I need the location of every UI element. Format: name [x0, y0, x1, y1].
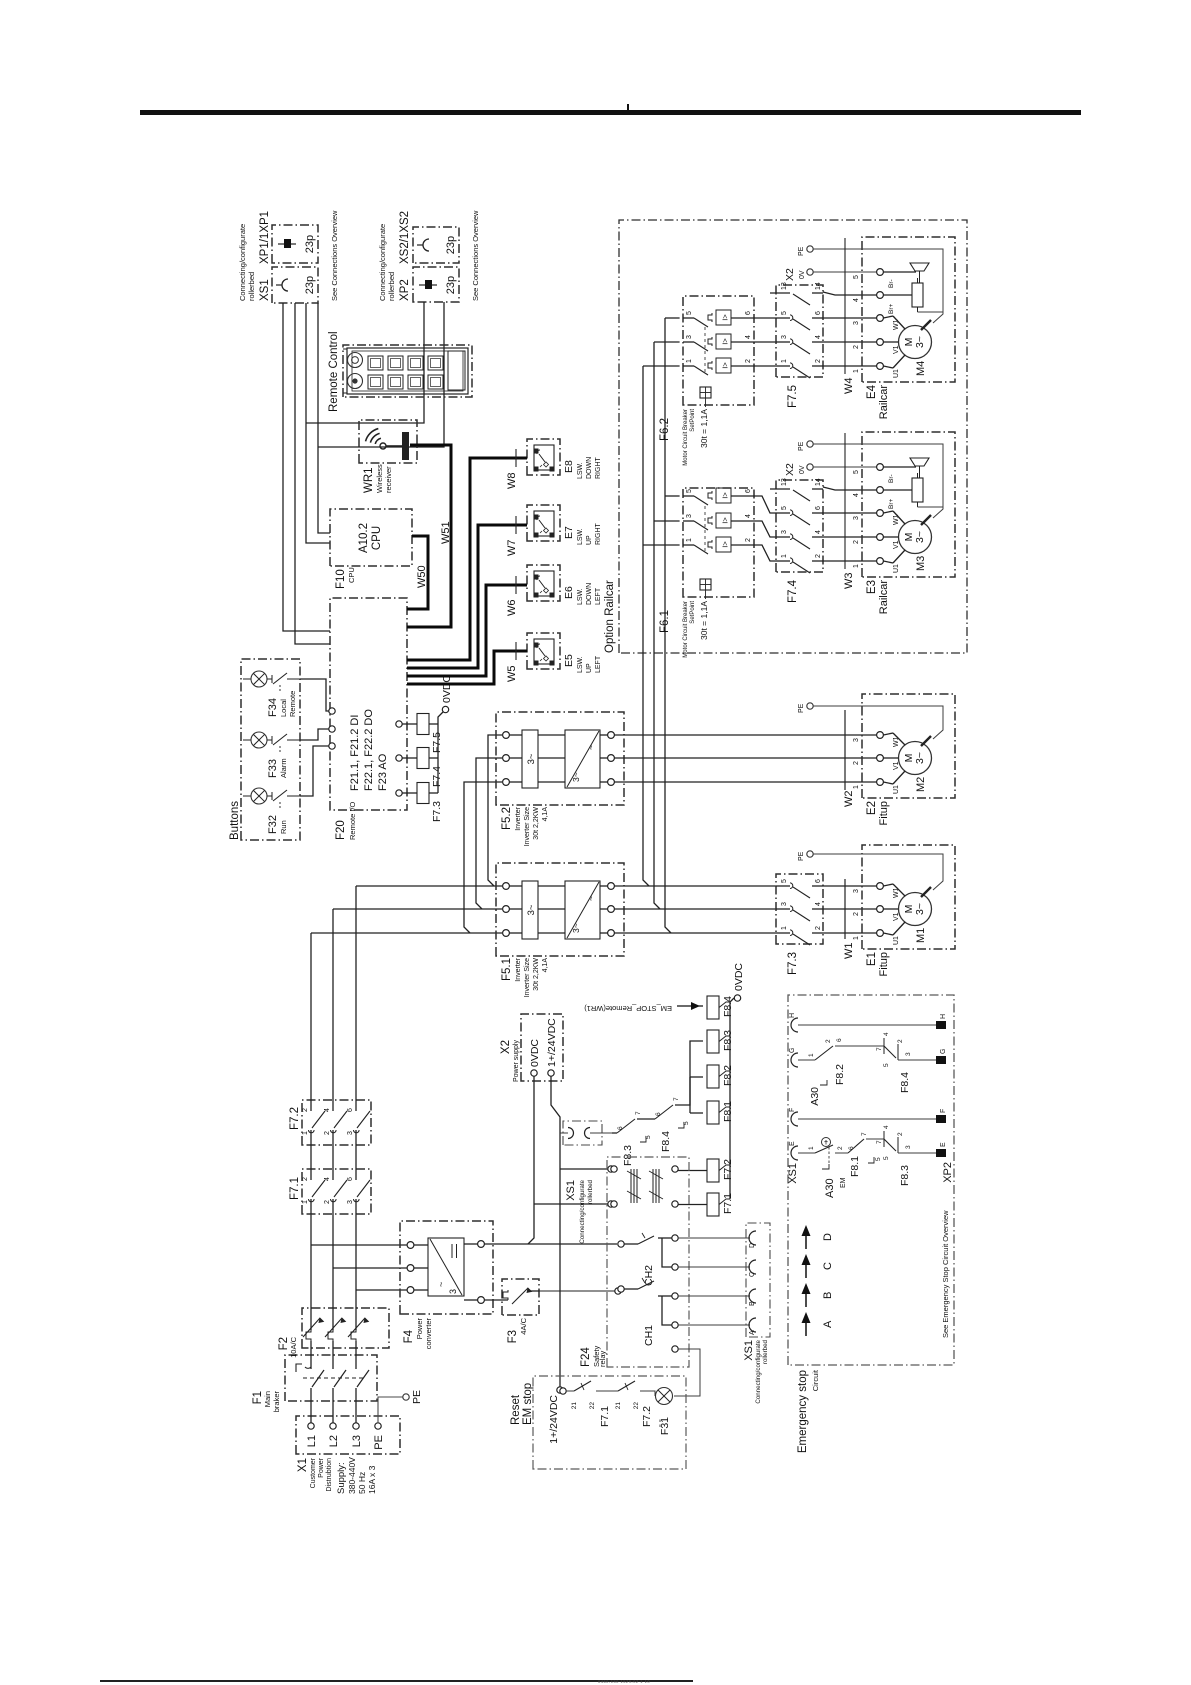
svg-text:Supply:: Supply:: [336, 1462, 347, 1494]
svg-text:2: 2: [815, 926, 822, 930]
svg-text:F: F: [940, 1109, 947, 1113]
svg-text:G: G: [789, 1048, 796, 1053]
svg-text:3~: 3~: [914, 336, 926, 348]
svg-text:4: 4: [815, 335, 822, 339]
svg-text:LSW.: LSW.: [577, 588, 584, 605]
svg-text:1: 1: [302, 1200, 309, 1204]
brake release horn E4: [883, 271, 916, 273]
svg-text:23p: 23p: [445, 236, 457, 254]
svg-text:3: 3: [347, 1131, 354, 1135]
svg-text:2: 2: [853, 540, 860, 544]
svg-text:E: E: [789, 1141, 796, 1146]
svg-text:X2: X2: [784, 268, 796, 281]
svg-text:3: 3: [905, 1052, 912, 1056]
motor M2: [899, 742, 932, 775]
svg-text:Main: Main: [263, 1391, 272, 1407]
svg-text:1: 1: [686, 538, 693, 542]
svg-text:3: 3: [781, 902, 788, 906]
svg-text:rollerbed: rollerbed: [247, 272, 256, 301]
svg-text:UP: UP: [586, 663, 593, 673]
svg-text:4: 4: [745, 335, 752, 339]
svg-text:3: 3: [347, 1200, 354, 1204]
svg-text:3~: 3~: [914, 752, 926, 764]
svg-text:F8.3: F8.3: [722, 1030, 734, 1051]
wire F24 to reset lamp: [674, 1349, 700, 1396]
svg-text:5: 5: [875, 1157, 882, 1161]
svg-text:F7.4: F7.4: [787, 579, 799, 603]
svg-text:380-440V: 380-440V: [347, 1457, 357, 1494]
brake resistor E3: [883, 489, 912, 491]
svg-text:7: 7: [876, 1140, 883, 1144]
svg-text:W50: W50: [416, 565, 428, 588]
svg-text:6: 6: [815, 879, 822, 883]
svg-text:2: 2: [897, 1132, 904, 1136]
svg-text:3: 3: [853, 516, 860, 520]
svg-text:1: 1: [808, 1053, 815, 1057]
cable W8 to E8: [407, 458, 527, 660]
XS1 rollerbed connector (safety chain): [563, 1121, 602, 1145]
svg-text:Inverter Size: Inverter Size: [524, 958, 531, 997]
feed line C to breaker pin5: [665, 318, 671, 933]
F24 forcibly guided contact symbols: [630, 1169, 632, 1203]
wires F6.2 to F7.5: [754, 365, 776, 367]
svg-text:EM_STOP_Remote(WR1): EM_STOP_Remote(WR1): [584, 1004, 672, 1013]
svg-text:F7.5: F7.5: [787, 385, 799, 408]
svg-text:3: 3: [853, 321, 860, 325]
svg-text:2: 2: [897, 1039, 904, 1043]
svg-text:I>: I>: [721, 362, 730, 369]
svg-text:E3: E3: [866, 580, 878, 594]
svg-text:1: 1: [302, 1131, 309, 1135]
contactor coils F7.3 F7.4 F7.5 at F20 outputs: [396, 790, 402, 796]
svg-text:5: 5: [883, 1063, 890, 1067]
svg-text:3: 3: [853, 889, 860, 893]
svg-text:1: 1: [853, 564, 860, 568]
svg-text:B: B: [749, 1301, 756, 1306]
wire XS1 to F20 (2): [295, 303, 330, 644]
svg-text:I>: I>: [721, 492, 730, 499]
reset 24V terminal: [560, 1388, 566, 1394]
brake slash M4: [921, 320, 931, 330]
svg-text:6: 6: [836, 1038, 843, 1042]
svg-text:F24: F24: [580, 1347, 592, 1367]
svg-text:M4: M4: [915, 361, 927, 376]
svg-text:13: 13: [781, 282, 788, 290]
svg-text:Connecting/configurate: Connecting/configurate: [755, 1339, 762, 1403]
X2 terminal 0V E3: [807, 464, 813, 470]
wire XS1 to CPU (2) with branch to XP2: [318, 303, 330, 533]
svg-text:G: G: [940, 1049, 947, 1054]
svg-text:4: 4: [883, 1125, 890, 1129]
cable W5 to E5: [407, 651, 527, 684]
svg-text:XS1: XS1: [565, 1180, 577, 1201]
reset contact F7.1 21-22: [566, 1390, 574, 1392]
svg-text:F4: F4: [403, 1329, 415, 1343]
test button F6.1: [700, 579, 711, 590]
taps to F4 inputs: [311, 1244, 407, 1246]
svg-text:6: 6: [655, 1112, 662, 1116]
svg-text:E1: E1: [866, 952, 878, 966]
svg-text:F32: F32: [267, 815, 279, 834]
svg-text:F31: F31: [659, 1417, 671, 1435]
svg-text:23p: 23p: [304, 235, 316, 253]
svg-text:2: 2: [302, 1108, 309, 1112]
X2 power supply box: [521, 1014, 563, 1081]
svg-text:W1: W1: [893, 514, 900, 525]
svg-text:3~: 3~: [914, 531, 926, 543]
feed line A to breaker pin1: [643, 366, 649, 886]
connector XP1/1XP1: [272, 225, 318, 263]
svg-text:E5: E5: [563, 654, 575, 667]
safety switch F8.3 (5-6-7): [612, 1132, 617, 1134]
svg-text:Fitup: Fitup: [878, 801, 890, 825]
svg-text:F34: F34: [267, 698, 279, 717]
svg-text:Buttons: Buttons: [229, 801, 241, 840]
phase trunk L3: [355, 1214, 357, 1308]
svg-text:PE: PE: [411, 1390, 423, 1404]
svg-text:5: 5: [683, 1121, 690, 1125]
feed line B to breaker pin3: [654, 342, 660, 909]
contact F8.2 on G: [798, 1059, 815, 1061]
svg-text:6: 6: [745, 311, 752, 315]
svg-text:Connecting/configurate: Connecting/configurate: [579, 1179, 586, 1243]
drop to F5.1 input 3: [356, 885, 502, 887]
wire F straight: [798, 1118, 936, 1120]
svg-text:3~: 3~: [526, 904, 537, 915]
svg-text:Remote: Remote: [288, 691, 297, 717]
svg-text:Railcar: Railcar: [878, 385, 890, 420]
svg-text:I>: I>: [721, 541, 730, 548]
svg-text:2: 2: [815, 359, 822, 363]
svg-text:I>: I>: [721, 517, 730, 524]
svg-text:B: B: [822, 1292, 834, 1299]
brake release horn E3: [883, 466, 916, 468]
24V rail from X2 to reset and F24: [551, 1076, 560, 1387]
svg-text:5: 5: [645, 1135, 652, 1139]
svg-text:PE: PE: [798, 441, 805, 451]
button F33: [243, 739, 251, 741]
svg-text:2: 2: [324, 1200, 331, 1204]
svg-text:~: ~: [586, 745, 596, 750]
svg-text:F7.2: F7.2: [722, 1159, 734, 1180]
svg-text:6: 6: [617, 1126, 624, 1130]
svg-text:2: 2: [837, 1146, 844, 1150]
svg-text:PE: PE: [798, 703, 805, 713]
svg-text:See Connections Overview: See Connections Overview: [330, 210, 339, 301]
svg-text:10A/C: 10A/C: [289, 1336, 298, 1357]
svg-text:13: 13: [781, 478, 788, 486]
svg-text:XP1/1XP1: XP1/1XP1: [259, 211, 271, 264]
svg-text:E4: E4: [866, 384, 878, 399]
svg-text:F6.1: F6.1: [659, 610, 671, 633]
svg-text:E7: E7: [563, 526, 575, 539]
cable marker W3: [844, 433, 846, 569]
drop to F5.1 input 2: [333, 908, 502, 910]
wire XS1 to CPU (1) with branch to XP2: [306, 303, 330, 543]
svg-text:6: 6: [745, 489, 752, 493]
X2 terminal 0V E4: [807, 269, 813, 275]
cable marker W1: [844, 879, 846, 939]
svg-text:2: 2: [853, 345, 860, 349]
0V rail from F4 to X2 and F24: [484, 1243, 617, 1245]
svg-text:W1: W1: [843, 943, 855, 960]
svg-text:W7: W7: [506, 540, 518, 557]
svg-text:F8.3: F8.3: [622, 1145, 634, 1166]
svg-text:M1: M1: [915, 928, 927, 943]
svg-text:Br-: Br-: [888, 474, 895, 483]
svg-text:U1: U1: [893, 564, 900, 573]
svg-text:~: ~: [436, 1282, 446, 1287]
svg-text:30t = 1,1A: 30t = 1,1A: [699, 601, 709, 640]
svg-text:W3: W3: [843, 573, 855, 590]
F1 pole: [355, 1388, 357, 1423]
svg-text:2: 2: [853, 761, 860, 765]
wires buttons to F20: [300, 746, 330, 796]
svg-text:F7.2: F7.2: [289, 1107, 301, 1130]
svg-text:5: 5: [853, 470, 860, 474]
svg-text:XS2/1XS2: XS2/1XS2: [399, 211, 411, 264]
svg-text:F5.2: F5.2: [501, 807, 513, 830]
svg-text:30t = 1,1A: 30t = 1,1A: [699, 409, 709, 448]
direction arrows A B C D: [805, 1323, 807, 1336]
svg-text:6: 6: [347, 1108, 354, 1112]
svg-text:W1: W1: [893, 736, 900, 747]
svg-text:3~: 3~: [526, 753, 537, 764]
cable W7 to E7: [407, 525, 527, 668]
svg-text:4: 4: [883, 1032, 890, 1036]
svg-text:Option Railcar: Option Railcar: [604, 580, 616, 653]
aux contact 13/14 F7.4: [770, 488, 790, 490]
svg-text:F20: F20: [335, 820, 347, 840]
svg-text:5: 5: [781, 311, 788, 315]
svg-text:PE: PE: [798, 246, 805, 256]
svg-text:1: 1: [781, 926, 788, 930]
svg-text:Power: Power: [318, 1457, 325, 1478]
svg-text:E6: E6: [563, 586, 575, 599]
svg-text:H: H: [789, 1013, 796, 1018]
unit box E4: [862, 237, 955, 382]
svg-text:XP2: XP2: [942, 1162, 954, 1183]
svg-text:Br+: Br+: [888, 499, 895, 510]
phase wires F7.2 to inverter columns: [310, 933, 312, 1100]
svg-text:H: H: [940, 1014, 947, 1019]
svg-text:5: 5: [686, 311, 693, 315]
svg-text:X1: X1: [297, 1458, 309, 1472]
svg-text:Run: Run: [279, 820, 288, 834]
wireless receiver WR1: [359, 420, 417, 463]
svg-text:2: 2: [815, 554, 822, 558]
svg-text:W2: W2: [843, 791, 855, 808]
svg-text:A: A: [822, 1320, 834, 1328]
svg-text:F7.3: F7.3: [787, 952, 799, 975]
svg-text:Inverter: Inverter: [515, 806, 522, 830]
wires F24 to XS1 connector A-D: [678, 1237, 750, 1239]
unit box E1: [862, 845, 955, 949]
svg-text:3: 3: [686, 335, 693, 339]
wires E4 contactor to terminals: [823, 365, 877, 367]
svg-text:Remote I/O: Remote I/O: [348, 801, 357, 840]
svg-text:3~: 3~: [914, 903, 926, 915]
motor circuit breaker F6.1: [683, 488, 754, 597]
svg-text:XS1: XS1: [259, 279, 271, 301]
svg-text:receiver: receiver: [384, 466, 393, 493]
connector XS2/1XS2: [413, 227, 459, 263]
svg-text:Connecting/configurate: Connecting/configurate: [378, 224, 387, 301]
svg-text:WR1: WR1: [363, 467, 375, 493]
svg-text:U1: U1: [893, 369, 900, 378]
contact F8.1 on E: [835, 1152, 848, 1154]
cable W6 to E6: [407, 585, 527, 676]
svg-text:1+/24VDC: 1+/24VDC: [546, 1018, 558, 1067]
svg-text:F8.3: F8.3: [899, 1165, 911, 1186]
svg-text:converter: converter: [424, 1317, 433, 1349]
svg-text:0V: 0V: [799, 465, 806, 474]
F7.1 F7.2 coil feeds from F24: [677, 1204, 707, 1206]
svg-text:1: 1: [781, 359, 788, 363]
motor M1: [899, 893, 932, 926]
svg-text:1: 1: [853, 785, 860, 789]
connector XP2: [413, 267, 459, 302]
svg-text:21: 21: [615, 1402, 622, 1410]
limit switch E5: [527, 633, 560, 669]
svg-text:4A/C: 4A/C: [519, 1317, 528, 1334]
svg-text:F: F: [789, 1108, 796, 1112]
svg-text:braker: braker: [272, 1391, 281, 1413]
unit box E2: [862, 694, 955, 798]
svg-text:M2: M2: [915, 777, 927, 792]
svg-text:UP: UP: [586, 535, 593, 545]
svg-text:A30: A30: [824, 1178, 836, 1198]
svg-text:7: 7: [673, 1097, 680, 1101]
svg-text:5: 5: [883, 1156, 890, 1160]
svg-text:F7.5: F7.5: [431, 732, 443, 753]
svg-text:4: 4: [745, 514, 752, 518]
svg-text:F8.4: F8.4: [660, 1131, 672, 1152]
svg-text:F5.1: F5.1: [501, 958, 513, 981]
F4 outputs: [478, 1241, 485, 1248]
svg-text:2: 2: [853, 912, 860, 916]
svg-text:5: 5: [686, 489, 693, 493]
svg-text:CPU: CPU: [347, 567, 356, 583]
svg-text:C: C: [822, 1262, 834, 1270]
svg-text:5: 5: [853, 275, 860, 279]
phase trunk L2: [332, 1214, 334, 1308]
svg-text:1+/24VDC: 1+/24VDC: [548, 1395, 560, 1444]
svg-text:L2: L2: [328, 1435, 340, 1447]
svg-text:RIGHT: RIGHT: [595, 457, 602, 480]
svg-text:3~: 3~: [571, 772, 581, 782]
svg-text:22: 22: [633, 1402, 640, 1410]
svg-text:PE: PE: [373, 1435, 385, 1450]
svg-text:Inverter Size: Inverter Size: [524, 807, 531, 846]
reset lamp F31: [656, 1388, 673, 1405]
rail to 0VDC terminal: [438, 712, 443, 793]
svg-text:F23 AO: F23 AO: [377, 753, 389, 791]
svg-text:W1: W1: [893, 887, 900, 898]
svg-text:A10.2: A10.2: [358, 523, 370, 553]
svg-text:2: 2: [745, 359, 752, 363]
CPU A10.2: [330, 509, 412, 566]
svg-text:RIGHT: RIGHT: [595, 523, 602, 546]
svg-text:L3: L3: [351, 1435, 363, 1447]
cable W50 CPU-F20: [407, 536, 428, 609]
svg-text:30t 2,2KW: 30t 2,2KW: [533, 807, 540, 840]
svg-text:E2: E2: [866, 801, 878, 815]
svg-text:7: 7: [876, 1047, 883, 1051]
XS1 connector A-D: [746, 1223, 770, 1337]
svg-text:Reset: Reset: [510, 1394, 522, 1425]
branch feeds to F5.2 inputs: [464, 782, 502, 933]
svg-text:2: 2: [324, 1131, 331, 1135]
svg-text:23p: 23p: [304, 276, 316, 294]
svg-text:SetPoint: SetPoint: [690, 601, 696, 624]
svg-text:~: ~: [586, 896, 596, 901]
svg-text:3: 3: [686, 514, 693, 518]
PE wire into E2: [813, 706, 943, 739]
svg-text:relay: relay: [598, 1350, 607, 1367]
svg-text:Motor Circuit Breaker: Motor Circuit Breaker: [683, 409, 689, 466]
emergency stop circuit box: [788, 995, 954, 1365]
svg-text:Local: Local: [279, 699, 288, 717]
F2 pole: [310, 1341, 312, 1355]
F24 input terminals: [611, 1166, 617, 1172]
svg-text:E8: E8: [563, 460, 575, 473]
svg-text:Customer: Customer: [310, 1457, 317, 1488]
power converter F4: [400, 1221, 493, 1314]
button F32: [243, 795, 251, 797]
contact F8.4 on G (changeover): [835, 1045, 884, 1047]
svg-text:Fitup: Fitup: [878, 952, 890, 976]
svg-text:4,1A: 4,1A: [542, 807, 549, 822]
aux contact 13/14 F7.5: [770, 292, 790, 294]
contactor F7.4: [776, 480, 823, 572]
svg-text:4: 4: [324, 1177, 331, 1181]
svg-text:XS1: XS1: [787, 1163, 799, 1184]
svg-text:D: D: [822, 1233, 834, 1241]
svg-text:Distrubtion: Distrubtion: [326, 1458, 333, 1492]
phase trunk L1: [310, 1214, 312, 1308]
svg-text:6: 6: [815, 506, 822, 510]
F1 pole: [332, 1388, 334, 1423]
F7.3 outputs to E1: [823, 932, 877, 934]
PE wire into E3: [813, 444, 943, 518]
svg-text:LSW.: LSW.: [577, 462, 584, 479]
svg-text:F10: F10: [335, 569, 347, 589]
svg-text:5: 5: [781, 879, 788, 883]
limit switch E8: [527, 439, 560, 475]
F2 pole: [332, 1341, 334, 1355]
inverter F5.1: [496, 863, 624, 956]
wire XS1 to F20 (1): [283, 303, 330, 631]
svg-text:F6.2: F6.2: [659, 418, 671, 441]
svg-text:F7.1: F7.1: [289, 1177, 301, 1200]
svg-text:4: 4: [324, 1108, 331, 1112]
svg-text:See Emergency Stop Circuit Ove: See Emergency Stop Circuit Overview: [941, 1210, 950, 1338]
unit box E3: [862, 432, 955, 577]
svg-text:F8.4: F8.4: [899, 1072, 911, 1093]
svg-text:A: A: [749, 1330, 756, 1335]
svg-text:L1: L1: [306, 1435, 318, 1447]
svg-text:PE: PE: [798, 851, 805, 861]
svg-text:D: D: [749, 1243, 756, 1248]
svg-text:X2: X2: [500, 1040, 512, 1054]
svg-text:0V: 0V: [799, 270, 806, 279]
svg-text:I>: I>: [721, 314, 730, 321]
svg-text:EM: EM: [840, 1177, 847, 1188]
svg-text:0VDC: 0VDC: [441, 675, 453, 703]
svg-text:U1: U1: [893, 936, 900, 945]
brake slash M3: [921, 515, 931, 525]
